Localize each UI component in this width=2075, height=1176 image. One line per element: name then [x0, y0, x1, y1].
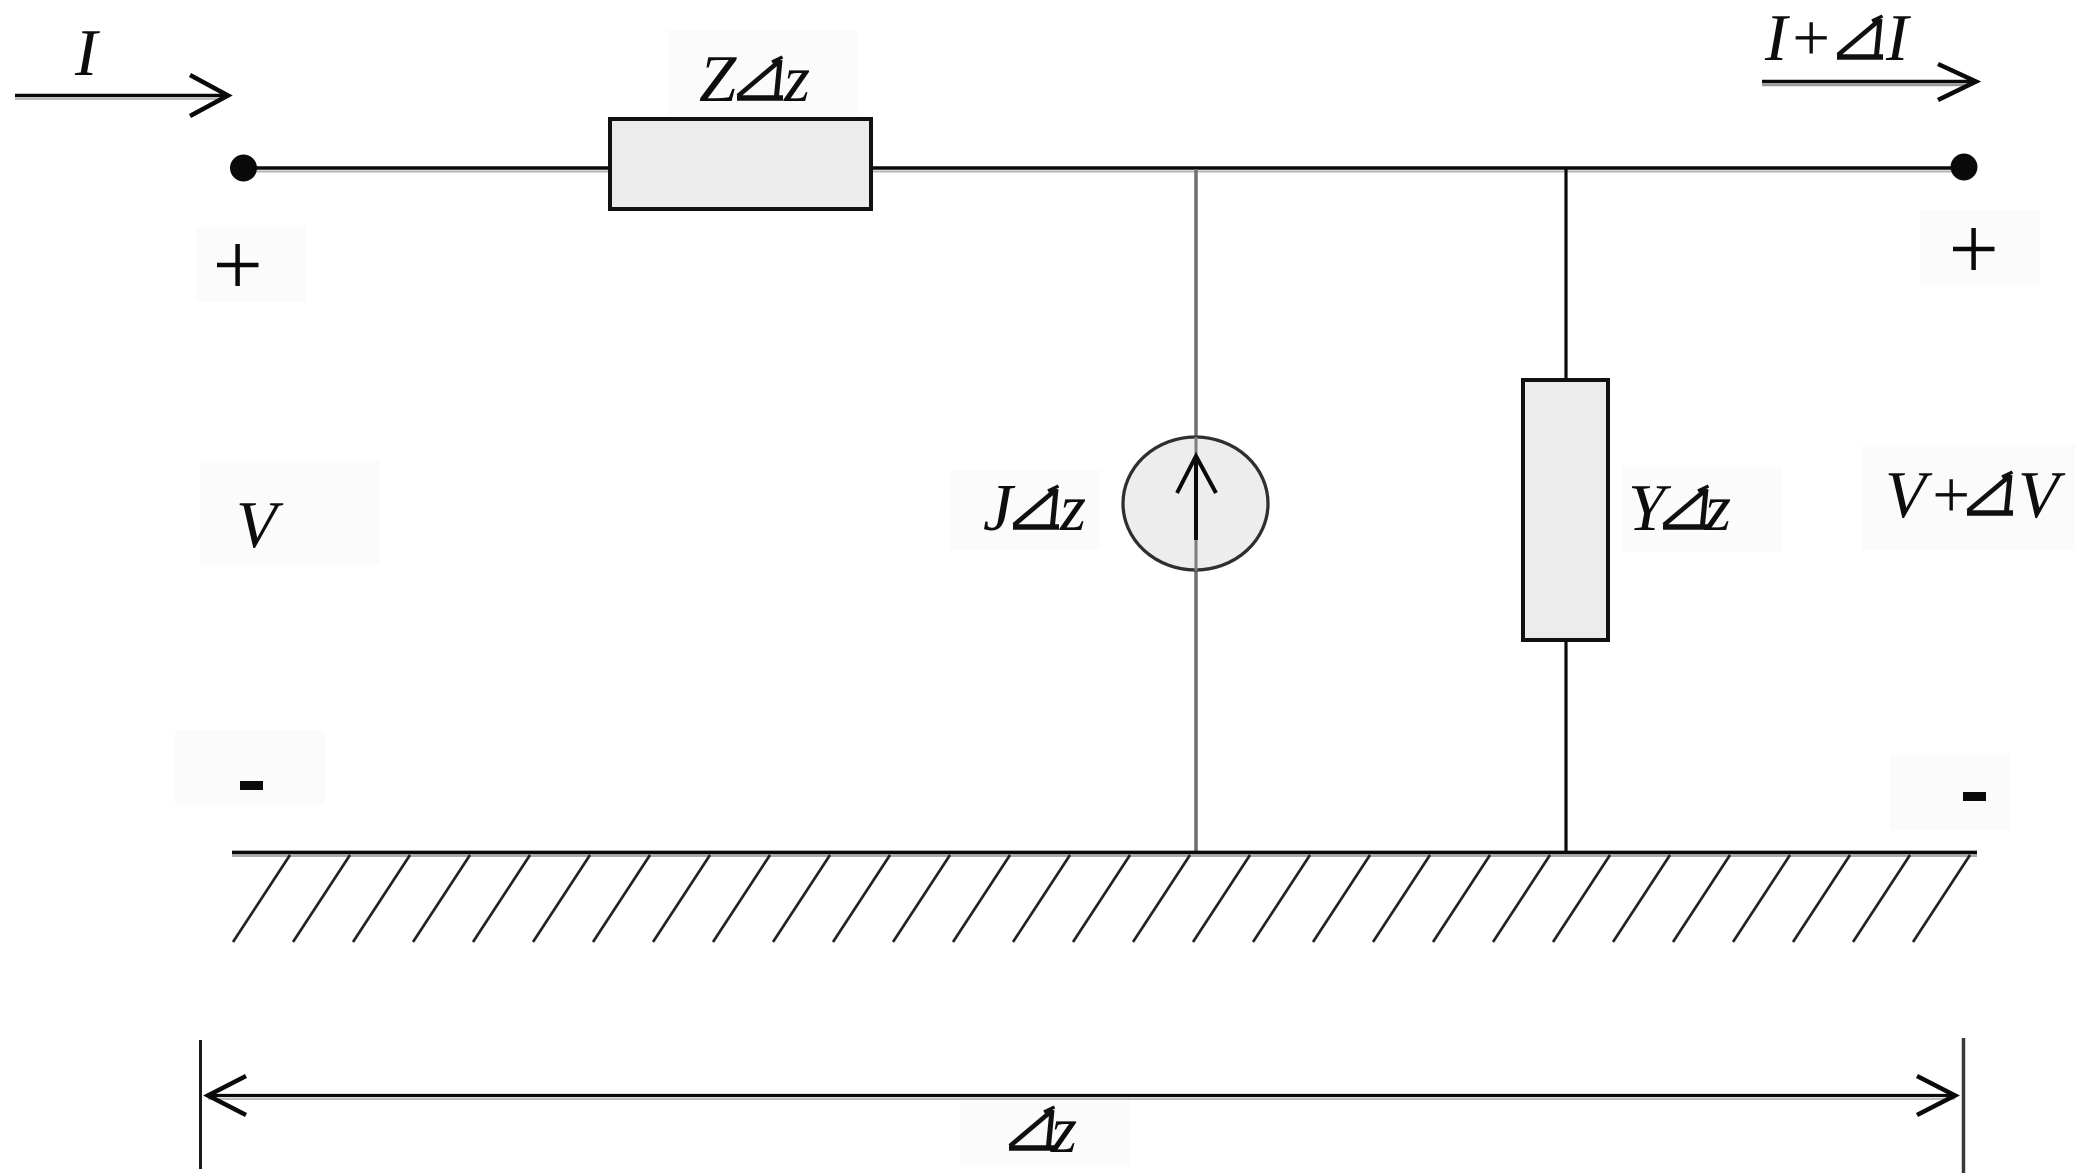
svg-text:V: V [2018, 458, 2066, 532]
svg-text:z: z [1704, 471, 1731, 545]
svg-text:z: z [1050, 1093, 1077, 1167]
svg-text:Z: Z [699, 42, 737, 116]
svg-text:J: J [983, 471, 1016, 545]
svg-text:I: I [1885, 1, 1911, 75]
svg-text:V: V [236, 488, 284, 562]
svg-text:+: + [1788, 1, 1833, 75]
svg-text:I: I [1764, 1, 1790, 75]
svg-text:I: I [74, 16, 100, 90]
svg-text:+: + [1928, 458, 1973, 532]
svg-text:z: z [783, 42, 810, 116]
svg-text:V: V [1885, 458, 1933, 532]
svg-text:z: z [1059, 471, 1086, 545]
